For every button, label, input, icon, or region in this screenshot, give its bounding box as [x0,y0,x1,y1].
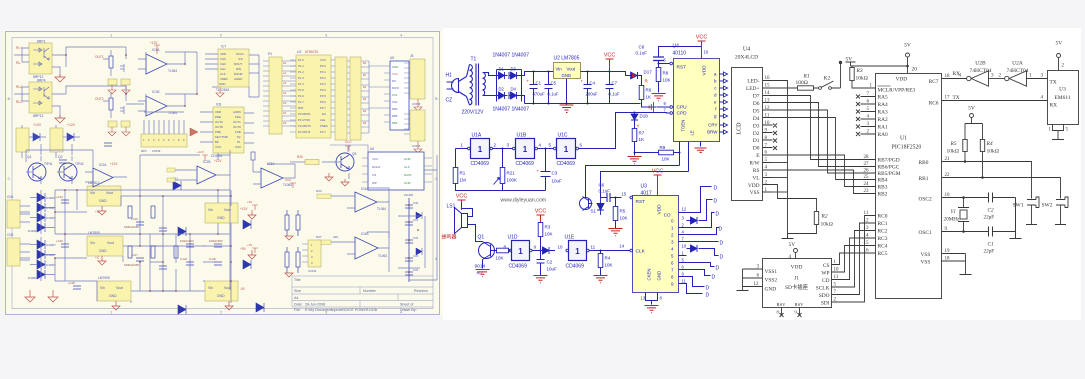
svg-text:R8: R8 [663,71,669,76]
svg-text:Q1: Q1 [27,155,32,159]
svg-text:VL: VL [752,176,759,182]
svg-text:LCD: LCD [737,122,743,135]
inverter U1D [504,235,537,270]
cap C5 0.1uF [545,72,559,104]
svg-text:C33: C33 [413,254,419,258]
svg-text:U2: U2 [297,50,301,54]
svg-text:11: 11 [591,245,596,250]
svg-text:P3.2/INT0: P3.2/INT0 [298,124,311,128]
svg-text:LED+: LED+ [746,86,760,92]
svg-text:S1: S1 [591,209,597,214]
svg-text:1N4007: 1N4007 [46,243,56,247]
svg-text:P0.0: P0.0 [320,64,326,68]
svg-text:VCC: VCC [696,35,708,41]
svg-text:27: 27 [864,162,870,167]
connector J3 4pin [302,240,321,273]
svg-text:D1: D1 [283,111,287,115]
svg-text:CS: CS [372,173,376,177]
RC7 wire to U2B [942,78,967,80]
J1 left pins VSS1 VSS2 GND [754,265,778,293]
svg-text:25: 25 [864,175,870,180]
RB pin names and numbers [864,155,901,198]
LCD data bundle wires D7,D6,D5,D4,E,RS to PIC RB pins [772,96,876,194]
svg-text:DATA: DATA [404,173,412,177]
svg-text:DGND: DGND [234,72,243,76]
diode between gates [543,247,556,254]
svg-text:13: 13 [641,296,646,301]
svg-text:IC1A: IC1A [152,48,160,52]
regulator box V2 [87,231,123,256]
op-amp IC2A [85,162,127,187]
connector strip PB [335,57,350,140]
diode D25 [243,260,251,269]
svg-text:CLK: CLK [220,72,226,76]
svg-text:GND: GND [217,216,225,220]
resistor R4 10K [598,250,612,276]
gate pin numbers [461,143,583,148]
svg-text:A1: A1 [283,71,287,75]
svg-text:+: + [581,79,584,84]
svg-text:Vin: Vin [208,208,213,212]
svg-text:1M: 1M [460,178,467,183]
svg-text:100uF/25V: 100uF/25V [209,239,223,243]
U3 pin2 to 5V [1058,58,1060,71]
svg-text:VCC: VCC [320,58,326,62]
svg-text:D: D [706,293,710,299]
K2 terminal node [840,64,842,89]
svg-text:CS2: CS2 [392,100,398,104]
svg-text:100uF/25V: 100uF/25V [180,239,194,243]
svg-text:蜂鸣器: 蜂鸣器 [442,234,457,241]
svg-text:1: 1 [523,145,528,154]
svg-text:TL064: TL064 [377,207,386,211]
svg-text:16: 16 [704,50,709,55]
misc wires right column [389,155,437,280]
diode D4 [509,92,521,99]
VSS pins to ground [942,254,972,275]
svg-text:ROW: ROW [392,86,399,90]
svg-text:D: D [714,199,718,205]
resistor 10K base [496,248,511,260]
svg-text:TL064: TL064 [168,69,177,73]
svg-text:24C08: 24C08 [404,193,413,197]
svg-text:DIN: DIN [236,67,241,71]
svg-text:RSV: RSV [795,302,805,307]
diode D21 [173,181,181,190]
svg-text:LED-: LED- [747,79,759,85]
transformer T1 [467,64,497,106]
svg-text:RST: RST [636,199,646,205]
cap C1 22pF [984,227,995,255]
connector strip PA [263,52,296,134]
svg-text:D: D [720,255,724,261]
svg-text:B0: B0 [363,61,367,65]
red power labels [95,207,248,291]
svg-text:R40: R40 [297,155,303,159]
svg-text:OUT9: OUT9 [233,125,241,129]
potentiometer R21 100K [494,168,518,185]
svg-text:RC2: RC2 [878,229,888,235]
ground below Q1 (red) [476,270,490,277]
cap C2 22pF [984,193,995,221]
svg-text:CH1: CH1 [220,67,226,71]
svg-text:R47: R47 [316,235,322,239]
IC U3 4017 [633,184,679,293]
svg-text:SCLK: SCLK [816,286,830,292]
svg-text:FRA: FRA [235,115,241,119]
svg-text:RC5: RC5 [878,251,888,257]
svg-text:TL064: TL064 [168,111,177,115]
svg-text:U1D: U1D [508,235,518,241]
ground below R4 (red) [594,276,608,283]
svg-text:VDD: VDD [791,265,803,271]
no-connect x marks on D3-D0 [773,124,777,151]
svg-text:470uF: 470uF [533,92,546,97]
svg-text:Date:: Date: [294,303,303,307]
svg-text:VCC: VCC [345,140,352,144]
svg-text:Y1: Y1 [951,209,957,215]
svg-text:WP: WP [821,271,829,277]
title block [292,276,433,307]
svg-text:OUT0: OUT0 [215,120,223,124]
right cap/diode column [405,198,413,282]
svg-text:U5: U5 [390,56,394,60]
svg-text:10kΩ: 10kΩ [821,222,833,228]
svg-text:Revision: Revision [414,289,428,293]
svg-text:A2: A2 [283,81,287,85]
svg-text:U4: U4 [743,47,750,53]
right side pin names [919,71,961,266]
ground below U3 (red) [645,306,659,313]
RA pin stubs with x [861,97,876,135]
svg-text:www.diyleyuan.com: www.diyleyuan.com [501,198,547,204]
svg-text:+C14: +C14 [56,195,63,199]
transistor Q3 [290,145,356,179]
svg-text:+: + [537,169,540,174]
svg-text:SD卡插座: SD卡插座 [785,283,809,291]
svg-text:VCC: VCC [604,53,616,59]
svg-text:24: 24 [864,182,870,187]
op-amp IC4B [316,232,389,259]
svg-text:HOLD: HOLD [372,165,381,169]
svg-text:B3: B3 [363,97,367,101]
svg-text:RA3: RA3 [878,110,888,116]
svg-text:D18: D18 [640,114,649,119]
svg-text:OSC2: OSC2 [919,197,932,203]
wire LED- to ground collector [772,81,788,234]
svg-text:File:: File: [294,308,301,312]
resistor R3 10k [850,66,876,89]
diode on output 0 [687,217,698,224]
svg-text:+12V: +12V [197,150,204,154]
svg-text:OUT2: OUT2 [95,97,104,101]
svg-text:P0.5: P0.5 [320,94,326,98]
extra bus wires [26,144,230,290]
U4 CPD pin7 stub [616,108,673,115]
svg-text:5V: 5V [1056,41,1063,47]
svg-text:CS: CS [823,263,830,269]
svg-text:10K: 10K [663,78,671,83]
svg-text:Q1: Q1 [478,235,485,241]
wire LED+ to R1 [772,87,798,89]
svg-text:D: D [714,186,718,192]
svg-text:SW1: SW1 [1013,203,1024,209]
svg-text:R2: R2 [821,214,828,220]
ground arrows mid [98,206,233,310]
svg-text:1K: 1K [646,95,652,100]
resistor R2 10k [788,212,833,234]
RC to SD nested wires [839,216,876,303]
svg-text:C32: C32 [413,236,419,240]
svg-text:C2: C2 [547,260,553,265]
svg-text:10K: 10K [620,216,628,221]
svg-text:IC4B: IC4B [361,232,369,236]
ground arrows bottom-left [25,290,58,302]
svg-text:CD4069: CD4069 [516,161,535,167]
ground below C2 (red) [534,276,548,283]
inverter U1E [558,235,596,270]
diode D26 [256,303,264,312]
regulator box V1 [87,181,121,206]
svg-text:P1.3: P1.3 [298,76,304,80]
svg-text:C3: C3 [552,171,558,176]
svg-text:P2: P2 [237,135,241,139]
junction dots on power rails [533,71,589,105]
svg-text:VDD: VDD [220,52,226,56]
svg-text:1N4007: 1N4007 [493,53,511,59]
svg-text:VDD: VDD [215,110,221,114]
svg-text:Y: Y [637,124,640,129]
svg-text:D3: D3 [511,67,517,72]
cap C4 200uF [581,72,599,104]
svg-text:U2 LM7805: U2 LM7805 [554,56,580,62]
svg-text:R9: R9 [660,145,666,150]
misc top wires [66,47,259,160]
svg-text:RST: RST [298,106,304,110]
LCD pin names [746,79,760,197]
svg-text:SW2: SW2 [1042,203,1053,209]
svg-text:GND: GND [404,157,412,161]
svg-text:SDO: SDO [819,293,830,299]
resistor pair mid1 [285,210,300,236]
+12 rail boxes top-left [16,123,80,158]
svg-text:VCC: VCC [372,157,379,161]
electrolytic caps row 1 [61,200,222,289]
svg-text:CRY: CRY [708,123,717,128]
svg-text:IC2B: IC2B [203,160,211,164]
svg-text:U6: U6 [370,147,374,151]
svg-text:IC7: IC7 [221,45,226,49]
resistor header RP [141,120,198,153]
svg-text:RA5: RA5 [878,95,888,101]
svg-text:ALE: ALE [320,118,325,122]
svg-text:U4: U4 [673,44,680,50]
U3 EM611 box [1048,41,1079,140]
svg-text:R3: R3 [545,225,551,230]
svg-text:-5V: -5V [240,287,246,291]
svg-text:RA2: RA2 [878,117,888,123]
SD card socket J1 [763,259,832,308]
diode D1 [497,72,508,79]
5V terminal above SD card [789,242,798,260]
ground below R5 (red) [609,229,623,236]
svg-text:C34: C34 [413,268,419,272]
svg-text:1N4007: 1N4007 [512,107,530,113]
svg-text:WP: WP [372,181,377,185]
svg-text:RX: RX [1050,103,1058,109]
svg-text:100Ω: 100Ω [796,80,808,86]
svg-text:B2: B2 [363,85,367,89]
LCD pin numbers [765,76,771,193]
svg-text:CPD: CPD [677,111,688,117]
svg-text:10kΩ: 10kΩ [856,76,868,82]
svg-text:P0.3: P0.3 [320,82,326,86]
MCU big IC [290,50,335,138]
input RC network A [95,50,130,94]
svg-text:CD4069: CD4069 [509,264,528,270]
svg-text:Q2: Q2 [58,155,63,159]
svg-text:R1: R1 [460,171,466,176]
svg-text:RS: RS [392,79,396,83]
svg-text:LM7905: LM7905 [98,276,110,280]
switch K2 [814,61,843,90]
svg-text:Vout: Vout [106,191,113,195]
svg-text:GND: GND [657,271,662,281]
svg-text:A: A [435,256,438,261]
svg-text:CD4069: CD4069 [557,161,576,167]
svg-text:TL064: TL064 [378,254,387,258]
svg-text:C1: C1 [536,81,542,86]
resistor R5 10k [947,140,968,163]
svg-text:OSC1: OSC1 [919,230,932,236]
wire LCD VDD to R2 rail [772,185,817,212]
svg-text:VCC: VCC [652,169,664,175]
svg-text:D: D [712,275,716,281]
svg-text:1000uF/25V: 1000uF/25V [124,225,139,229]
input RC network B [95,92,130,136]
5V terminal above PIC VDD [904,43,917,74]
svg-text:1N4007: 1N4007 [28,276,38,280]
svg-text:RC6: RC6 [929,101,939,107]
svg-text:10: 10 [682,244,687,249]
svg-text:IC8: IC8 [216,103,221,107]
svg-text:10K: 10K [662,157,670,162]
svg-text:VDD: VDD [748,183,760,189]
inverter U2B 74HCT04 [959,61,1005,87]
svg-text:RA1: RA1 [878,125,888,131]
diode stack B (bridge) [37,240,45,279]
crystal Y1 20MHz [944,196,970,233]
svg-text:R7: R7 [639,131,645,136]
svg-text:P0.6: P0.6 [320,100,326,104]
svg-text:CD: CD [822,278,830,284]
svg-text:RB5/PGM: RB5/PGM [878,171,901,177]
svg-text:D: D [716,212,720,218]
svg-text:VSS: VSS [750,190,760,196]
svg-text:220V/12V: 220V/12V [462,110,485,116]
svg-text:D2: D2 [753,131,760,137]
OSC2 wire with cap C2 [942,197,1016,199]
svg-text:U1E: U1E [565,235,575,241]
svg-text:CS1: CS1 [392,93,398,97]
svg-text:P3.0/RXD: P3.0/RXD [298,112,310,116]
svg-text:P0.1: P0.1 [320,70,326,74]
svg-text:PRE: PRE [215,130,221,134]
svg-text:+5V: +5V [247,243,252,247]
svg-text:D0: D0 [283,101,287,105]
wire R2 bottom to ground collector [788,225,817,234]
svg-text:CO: CO [664,213,671,218]
svg-text:1N4007: 1N4007 [46,253,56,257]
svg-text:IC1B: IC1B [152,90,160,94]
svg-text:J5: J5 [410,54,414,58]
svg-text:Vout: Vout [107,241,114,245]
svg-text:CH0: CH0 [220,62,226,66]
IC K8 (EEPROM) [200,103,254,159]
optocoupler RP4 [16,79,52,119]
svg-text:CD4069: CD4069 [471,161,490,167]
svg-text:8RP4: 8RP4 [37,79,46,83]
svg-text:12: 12 [682,207,687,212]
svg-text:P0.4: P0.4 [320,88,326,92]
svg-text:VSS: VSS [921,260,931,266]
svg-text:P2.7: P2.7 [320,130,326,134]
LED D17 red (horizontal) [610,70,653,84]
svg-text:/CS: /CS [238,57,243,61]
svg-text:C6: C6 [599,183,605,188]
U3 output wires with D tags [679,187,720,294]
svg-text:0.1uF: 0.1uF [636,51,648,56]
svg-text:C1: C1 [988,242,994,248]
svg-text:1: 1 [478,145,483,154]
svg-text:P1.2: P1.2 [298,70,304,74]
svg-text:U3: U3 [641,184,648,190]
transistor Q1 9014 [475,235,497,277]
regulator box V5 right [205,281,238,301]
diode D22 [178,227,186,236]
carry wires from U4 bottom [586,148,689,198]
svg-text:EA: EA [322,112,326,116]
svg-text:C: C [8,176,11,181]
middle+right schematic white background [443,28,1081,320]
svg-text:OSC: OSC [235,145,241,149]
U3 RST stub pin15 [622,192,633,199]
svg-text:R3: R3 [856,68,863,74]
op-amp IC4A [316,187,389,212]
svg-text:P1.0: P1.0 [298,58,304,62]
svg-text:200uF: 200uF [586,92,599,97]
svg-text:J1: J1 [794,276,799,282]
svg-text:26: 26 [864,169,870,174]
connector CON B right [404,110,425,153]
svg-text:RC1: RC1 [878,221,888,227]
svg-text:10K: 10K [545,232,553,237]
svg-text:14: 14 [620,244,625,249]
U3 bottom stubs 13 8 [646,293,658,305]
crystal caps junction to ground [1010,198,1022,239]
diode D24 [243,220,251,229]
U3 CLK stub pin14 [620,244,633,252]
svg-text:RC4: RC4 [878,244,888,250]
connector strip PC [350,57,369,140]
resistor R3 10K [538,223,552,252]
RB0 wire to SW1 [942,162,1032,199]
svg-text:D4: D4 [511,87,517,92]
resistor pair mid2 [285,247,300,273]
svg-text:CKEN: CKEN [647,269,652,281]
svg-text:SCLK: SCLK [236,52,244,56]
switch SW2 [1042,197,1069,225]
